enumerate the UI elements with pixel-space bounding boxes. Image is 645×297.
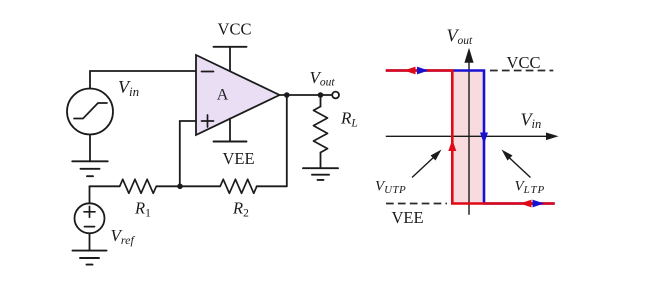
svg-text:VEE: VEE <box>391 208 423 227</box>
svg-text:A: A <box>217 87 229 104</box>
svg-text:VEE: VEE <box>222 149 254 168</box>
svg-text:VCC: VCC <box>507 53 541 72</box>
svg-text:VCC: VCC <box>218 20 252 39</box>
